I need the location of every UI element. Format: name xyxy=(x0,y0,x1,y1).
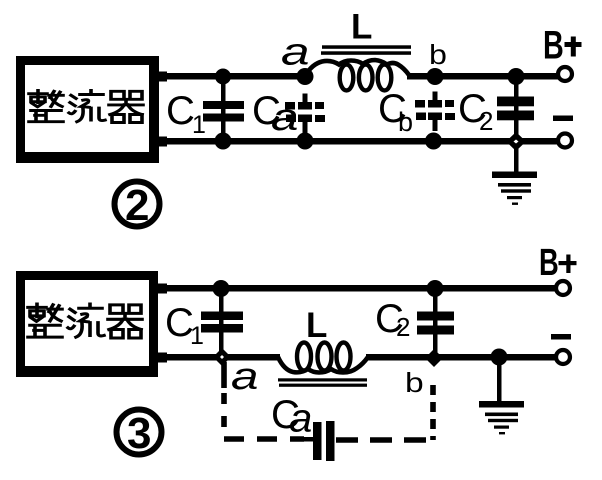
svg-text:a: a xyxy=(231,355,258,397)
svg-text:a: a xyxy=(271,96,298,138)
svg-text:1: 1 xyxy=(190,322,204,350)
svg-text:b: b xyxy=(405,367,424,399)
svg-text:a: a xyxy=(289,395,312,440)
svg-text:2: 2 xyxy=(396,312,410,342)
svg-text:B: B xyxy=(539,242,559,284)
svg-text:2: 2 xyxy=(125,181,149,230)
svg-text:L: L xyxy=(306,306,327,345)
svg-text:3: 3 xyxy=(127,409,151,458)
svg-text:B: B xyxy=(543,23,564,68)
svg-text:b: b xyxy=(398,107,413,137)
svg-text:L: L xyxy=(351,8,372,47)
svg-text:b: b xyxy=(429,40,447,71)
svg-text:1: 1 xyxy=(192,111,206,139)
svg-text:2: 2 xyxy=(479,106,493,136)
svg-text:a: a xyxy=(281,30,310,73)
svg-text:C: C xyxy=(166,89,195,133)
